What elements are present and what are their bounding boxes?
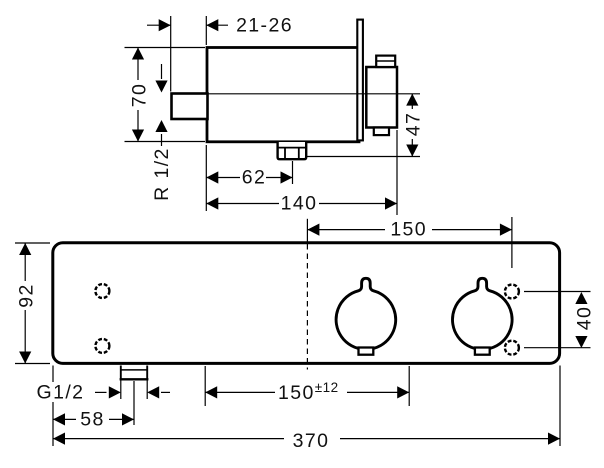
label G1/2 with arrows <box>37 382 170 404</box>
panel <box>53 243 560 364</box>
supply connection dashed bottom-right <box>505 341 519 355</box>
dimension 21-26 <box>147 14 293 91</box>
svg-text:62: 62 <box>242 167 267 189</box>
bottom fitting hex facet right <box>298 148 300 160</box>
dimension 92 <box>15 243 50 364</box>
mounting hole dashed top-left <box>95 284 109 298</box>
dimension 70 <box>125 48 206 142</box>
panel centerline dashed part <box>306 244 308 370</box>
dimension 150 (top of panel) <box>307 217 512 268</box>
svg-text:R 1/2: R 1/2 <box>151 147 173 201</box>
knob bottom tab (side) <box>374 128 389 136</box>
bottom fitting flange line <box>278 147 307 149</box>
dimension 62 <box>206 145 292 211</box>
knob top tab (side) <box>376 56 395 67</box>
dimension 140 <box>206 130 397 215</box>
right knob bottom notch <box>475 348 490 355</box>
valve body <box>207 48 359 142</box>
stub centerline <box>133 381 135 425</box>
panel centerline solid part <box>306 219 308 243</box>
right knob keyhole <box>452 278 512 349</box>
dimension 370 <box>53 366 560 453</box>
knob top tab inner line <box>376 60 395 62</box>
valve centerline <box>208 93 420 95</box>
supply connection dashed top-right <box>505 285 519 299</box>
bottom fitting outer <box>278 142 307 159</box>
wall plate <box>357 20 363 141</box>
svg-text:21-26: 21-26 <box>236 14 293 36</box>
knob body (side) <box>366 67 397 128</box>
svg-text:58: 58 <box>80 408 105 430</box>
label R1/2 <box>151 64 173 201</box>
outlet stub G1/2 <box>120 366 149 400</box>
bottom fitting hex facet left <box>284 148 286 160</box>
left outlet port R1/2 <box>172 94 208 120</box>
svg-text:40: 40 <box>574 306 596 331</box>
svg-text:370: 370 <box>293 430 330 452</box>
dimension 47 <box>307 94 425 157</box>
svg-text:92: 92 <box>16 283 38 308</box>
svg-text:47: 47 <box>403 112 425 137</box>
svg-text:G1/2: G1/2 <box>37 382 85 404</box>
svg-text:140: 140 <box>281 193 318 215</box>
dimension 40 <box>524 292 596 349</box>
dimension 150±12 <box>205 366 409 406</box>
svg-text:70: 70 <box>129 83 151 108</box>
dimension 58 <box>53 366 134 447</box>
svg-text:150: 150 <box>390 219 427 241</box>
mounting hole dashed bottom-left <box>95 339 109 353</box>
left knob keyhole <box>336 278 396 349</box>
left knob bottom notch <box>359 348 374 355</box>
